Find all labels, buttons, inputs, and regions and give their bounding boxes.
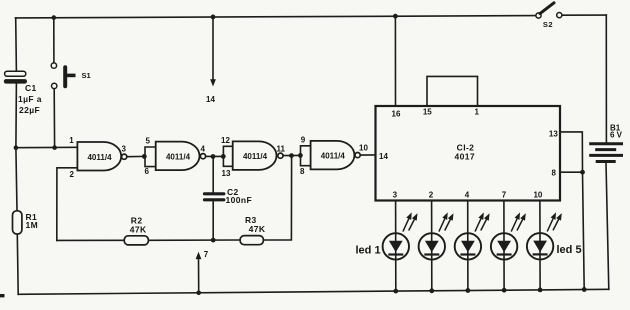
op-amp gate U1b 4011/4 [145,137,206,176]
pin14 supply arrow [206,79,216,104]
wire IC pin13 stub [560,132,583,172]
pin7 ground arrow [196,250,209,259]
wire IC pin8 stub [560,171,583,173]
svg-text:4011/4: 4011/4 [321,152,346,161]
node dot gate2 input bracket [142,154,147,159]
svg-text:5: 5 [146,137,151,146]
wire C1 bottom to node A [15,83,18,147]
wire gate3 output to gate4 input bracket [283,154,301,156]
wire R2 to C2 node [148,239,240,241]
LED led4 [491,212,526,259]
svg-text:13: 13 [549,130,558,139]
wire gate1 pin2 stub [57,168,78,241]
svg-text:10: 10 [533,191,542,200]
wire right vertical to battery top [605,15,607,142]
wire IC pin7 through led4 to rail [503,201,505,291]
svg-text:10: 10 [359,144,368,153]
wire 4011 pin7 ground arrow stem [198,257,200,293]
wire left rail top corner down to C1 [15,18,18,72]
wire S1 branch from top rail [53,18,55,63]
wire R2 row left segment [57,239,124,241]
svg-text:47K: 47K [249,224,266,234]
LED led1 [383,212,418,259]
switch S2 [536,3,562,29]
svg-text:1M: 1M [26,220,39,230]
wire IC pin16 to top rail [394,16,396,106]
node dot bottom rail led5 [538,288,543,293]
node dot C2 bottom at R2 R3 wire [211,238,216,243]
node dot bottom rail led3 [466,288,471,293]
wire gate2 input bracket [145,147,156,167]
svg-text:14: 14 [379,152,388,161]
svg-text:13: 13 [222,169,231,178]
node dot bottom rail led1 [393,289,398,294]
LED led5 [527,212,562,259]
wire bracket pin15 to pin1 over IC [427,76,478,106]
wire IC pin3 through led1 to rail [395,201,397,292]
wire R1 top to node A [16,148,17,211]
svg-text:14: 14 [206,95,215,104]
LED led2 [419,212,454,259]
svg-text:4: 4 [465,191,470,200]
node dot bottom rail pin8 riser [582,287,587,292]
op-amp gate U1a 4011/4 [69,136,126,179]
svg-text:12: 12 [221,136,230,145]
scan artifact left edge [0,294,5,297]
wire top rail left of S2 [16,16,538,18]
node dot top rail pin16 [393,14,398,19]
wire gate4 input bracket [301,146,311,166]
node dot top rail pin14 arrow [211,15,216,20]
svg-text:3: 3 [122,144,127,153]
svg-text:led 5: led 5 [557,244,582,256]
svg-text:47K: 47K [130,225,147,235]
capacitor C1 [4,71,42,115]
svg-text:7: 7 [204,250,209,259]
svg-text:4: 4 [201,145,206,154]
svg-text:2: 2 [70,170,75,179]
node dot C2 top branch [211,154,216,159]
resistor R1 [13,211,39,234]
node dot top rail S1 branch [52,15,57,20]
wire IC pin2 through led2 to rail [431,201,433,291]
svg-text:2: 2 [429,191,434,200]
op-amp gate U1c 4011/4 [221,136,286,178]
resistor R3 [240,215,266,245]
wire gate1 output to gate2 input bracket [127,155,145,157]
svg-text:16: 16 [392,110,401,119]
svg-text:C1: C1 [25,83,37,93]
wire node A to gate1 pin1 [16,146,78,148]
node dot gate3 input bracket [221,154,226,159]
svg-text:8: 8 [300,167,305,176]
svg-text:6: 6 [145,167,150,176]
svg-text:15: 15 [423,108,432,117]
node dot pin11 R3 branch [289,153,294,158]
svg-text:1µF a: 1µF a [18,94,42,104]
node dot gate4 input bracket [298,153,303,158]
wire gate2 output to gate3 input bracket [206,155,224,157]
wire 4011 pin14 supply arrow stem [212,17,214,80]
node dot bottom rail led2 [429,288,434,293]
op-amp gate U1d 4011/4 [300,136,368,176]
svg-text:9: 9 [301,136,306,145]
svg-text:4017: 4017 [455,151,476,161]
wire IC pin10 through led5 to rail [539,201,541,290]
svg-text:S1: S1 [82,71,91,80]
wire R3 right segment and riser to pin11 node [263,156,291,240]
wire C2 branch upper [212,157,214,193]
switch S1 pushbutton [51,63,90,89]
wire C2 branch lower [212,201,214,240]
svg-text:3: 3 [393,191,398,200]
LED led3 [455,212,490,259]
svg-text:4011/4: 4011/4 [166,152,191,161]
wire top rail right of S2 [562,14,606,16]
svg-text:11: 11 [277,145,286,154]
node dot bottom rail led4 [502,288,507,293]
svg-text:8: 8 [552,169,557,178]
svg-text:6 V: 6 V [610,131,623,140]
svg-text:4011/4: 4011/4 [87,153,112,162]
svg-text:7: 7 [502,191,507,200]
svg-text:22µF: 22µF [19,105,40,115]
svg-text:100nF: 100nF [226,195,253,205]
capacitor C2 [203,187,252,205]
svg-text:4011/4: 4011/4 [243,152,268,161]
svg-text:1: 1 [474,108,479,117]
node dot pin13 pin8 junction [580,170,585,175]
wire IC pin4 through led3 to rail [467,201,469,291]
wire battery bottom to bottom rail [606,163,609,289]
node A dot left rail [14,145,19,150]
wire bottom rail [18,289,609,294]
wire S1 lower contact down to node A [53,89,55,148]
svg-text:S2: S2 [543,20,553,29]
node dot S1 line at pin1 wire [52,145,57,150]
wire left riser from bottom rail to R1 [16,234,19,294]
svg-text:led 1: led 1 [356,244,381,256]
svg-text:1: 1 [69,136,74,145]
wire gate3 input bracket [223,146,232,166]
battery B1 [589,123,623,161]
wire gate4 output to IC pin14 [360,154,375,156]
wire pin8 node down to bottom rail [583,172,585,289]
node dot bottom rail 4011 ground [196,291,201,296]
IC CI-2 4017 [376,106,561,201]
resistor R2 [124,215,148,245]
